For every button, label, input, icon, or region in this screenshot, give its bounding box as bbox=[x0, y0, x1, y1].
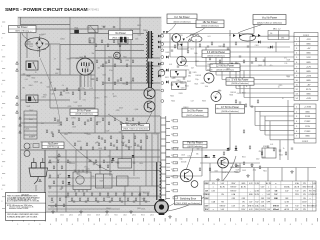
left margin ruler ticks bbox=[2, 22, 5, 208]
svg-text:D605: D605 bbox=[166, 52, 170, 54]
svg-text:C605: C605 bbox=[102, 75, 106, 77]
svg-text:C605: C605 bbox=[222, 162, 226, 164]
svg-text:GND: GND bbox=[306, 62, 311, 64]
resistor bbox=[219, 60, 221, 63]
svg-text:R621: R621 bbox=[195, 83, 199, 85]
voltage data table bbox=[204, 181, 316, 211]
svg-text:(D616 is Defective): (D616 is Defective) bbox=[221, 110, 238, 113]
resistor bbox=[261, 152, 263, 155]
capacitor bbox=[69, 162, 71, 163]
svg-text:+5V: +5V bbox=[307, 48, 311, 50]
svg-text:+8V: +8V bbox=[307, 85, 311, 87]
svg-text:14: 14 bbox=[296, 98, 298, 100]
capacitor bbox=[121, 201, 123, 202]
diode D320 bbox=[258, 41, 260, 44]
svg-text:Q612: Q612 bbox=[105, 215, 109, 217]
svg-text:0.47: 0.47 bbox=[187, 156, 190, 158]
diode bbox=[227, 148, 230, 150]
resistor bbox=[53, 166, 55, 169]
svg-text:220p: 220p bbox=[253, 170, 257, 172]
resistor bbox=[122, 136, 124, 139]
callout box: 5v-2 No Power bbox=[182, 108, 208, 117]
svg-text:AC IN: AC IN bbox=[295, 186, 300, 189]
svg-text:C603: C603 bbox=[42, 97, 46, 99]
svg-text:33k: 33k bbox=[23, 74, 26, 76]
svg-text:100k: 100k bbox=[135, 39, 139, 41]
svg-text:220p: 220p bbox=[179, 159, 183, 161]
resistor bbox=[128, 147, 130, 150]
transistor Q620 bbox=[211, 92, 221, 102]
resistor bbox=[146, 136, 148, 139]
svg-text:4.7: 4.7 bbox=[229, 35, 231, 37]
svg-text:3.3V: 3.3V bbox=[306, 57, 311, 59]
svg-text:6: 6 bbox=[296, 62, 297, 64]
svg-text:4: 4 bbox=[296, 121, 297, 123]
resistor bbox=[114, 82, 116, 85]
svg-text:R642: R642 bbox=[118, 59, 122, 61]
svg-text:AC IN: AC IN bbox=[220, 186, 225, 189]
transistor Q602 bbox=[144, 88, 155, 99]
inductor L611 bbox=[190, 35, 199, 37]
resistor bbox=[96, 78, 98, 81]
svg-text:D603: D603 bbox=[34, 81, 38, 83]
svg-text:650mA: 650mA bbox=[273, 208, 279, 211]
diode bbox=[235, 148, 238, 150]
leader wire Vcc box bbox=[238, 25, 262, 34]
IC visor block under CON2 bbox=[262, 148, 276, 158]
svg-text:10: 10 bbox=[37, 48, 39, 50]
relay RL601 bbox=[118, 35, 128, 44]
svg-text:4.7: 4.7 bbox=[54, 58, 56, 60]
svg-text:R633: R633 bbox=[202, 100, 206, 102]
svg-text:AC IN: AC IN bbox=[241, 186, 246, 189]
svg-text:33k: 33k bbox=[59, 189, 62, 191]
svg-text:L602: L602 bbox=[256, 159, 260, 161]
diode bbox=[68, 175, 71, 177]
svg-text:Q604: Q604 bbox=[258, 65, 262, 67]
resistor bbox=[243, 60, 245, 63]
resistor bbox=[51, 198, 53, 201]
svg-text:R602: R602 bbox=[167, 167, 171, 169]
svg-text:D605: D605 bbox=[165, 71, 169, 73]
svg-text:(Q615 Defective): (Q615 Defective) bbox=[187, 145, 202, 148]
capacitor bbox=[97, 201, 99, 202]
svg-text:D611: D611 bbox=[222, 158, 226, 160]
svg-text:R621: R621 bbox=[108, 56, 112, 58]
svg-text:12 V/6 No Power: 12 V/6 No Power bbox=[216, 65, 234, 68]
extra bottom bus lines bbox=[48, 162, 160, 209]
svg-text:100k: 100k bbox=[91, 176, 95, 178]
resistor bbox=[84, 122, 86, 125]
svg-text:D601: D601 bbox=[27, 42, 31, 44]
leader curve from fan box bbox=[187, 148, 194, 169]
connector CN602 ladder bbox=[161, 116, 170, 200]
capacitor C628 bbox=[171, 84, 173, 85]
warning triangle bbox=[58, 154, 61, 157]
callout box: 12V/6 No Power bbox=[210, 64, 240, 72]
diode pair cluster D320 area bbox=[233, 34, 236, 37]
resistor bbox=[108, 78, 110, 81]
svg-text:R611: R611 bbox=[90, 71, 94, 73]
svg-text:D612: D612 bbox=[131, 81, 135, 83]
resistor bbox=[111, 198, 113, 201]
resistor bbox=[187, 50, 189, 53]
resistor bbox=[54, 88, 56, 91]
warning triangle bbox=[16, 69, 19, 72]
svg-text:D611: D611 bbox=[84, 166, 88, 168]
resistor bbox=[132, 118, 134, 121]
resistor bbox=[119, 44, 121, 47]
resistor bbox=[138, 122, 140, 125]
svg-text:STB 5V: STB 5V bbox=[248, 205, 255, 207]
svg-text:C628: C628 bbox=[68, 106, 72, 108]
svg-text:GND: GND bbox=[305, 136, 310, 138]
svg-text:12: 12 bbox=[296, 89, 298, 91]
svg-text:R642: R642 bbox=[77, 174, 81, 176]
MDL mini table bbox=[268, 31, 289, 40]
svg-text:11: 11 bbox=[296, 85, 298, 87]
svg-text:10: 10 bbox=[296, 80, 298, 82]
warning triangle bbox=[39, 179, 42, 182]
svg-text:33k: 33k bbox=[50, 82, 53, 84]
transistor Q605 bbox=[114, 52, 121, 59]
relay RL602 bbox=[26, 61, 38, 70]
svg-text:C603: C603 bbox=[55, 158, 59, 160]
wires below Q601 bbox=[81, 72, 91, 87]
connector CON1 pin table bbox=[294, 33, 318, 101]
inductor L602 bbox=[89, 38, 94, 43]
leader wire from callout to bridge bbox=[22, 33, 29, 40]
transistor Q617 bbox=[218, 157, 229, 168]
svg-text:1k: 1k bbox=[246, 86, 248, 88]
resistor bbox=[116, 140, 118, 143]
svg-text:33k: 33k bbox=[40, 83, 43, 85]
transformer T601 secondary windings bbox=[152, 34, 154, 58]
posistor THP601 bbox=[24, 143, 30, 149]
svg-text:x: x bbox=[275, 183, 276, 185]
warning triangle bbox=[84, 56, 87, 59]
warning triangle bbox=[16, 111, 19, 114]
svg-text:OFF: OFF bbox=[267, 202, 270, 204]
svg-text:0.01: 0.01 bbox=[231, 166, 234, 168]
capacitor bbox=[87, 120, 89, 121]
resistor bbox=[99, 165, 101, 168]
diode D615 bbox=[158, 63, 160, 66]
resistor bbox=[57, 175, 59, 178]
resistor bbox=[135, 198, 137, 201]
degauss coil ellipse bbox=[304, 33, 314, 40]
svg-text:R633: R633 bbox=[67, 59, 71, 61]
svg-text:ZD601: ZD601 bbox=[60, 39, 65, 41]
svg-text:13: 13 bbox=[296, 94, 298, 96]
resistor bbox=[235, 164, 237, 167]
connector CON2 pin table bbox=[294, 104, 316, 143]
svg-text:R611: R611 bbox=[242, 157, 246, 159]
svg-text:-12V: -12V bbox=[306, 39, 311, 41]
svg-text:Q601: Q601 bbox=[79, 57, 83, 59]
resistor bbox=[147, 193, 149, 196]
svg-text:470u: 470u bbox=[186, 70, 190, 72]
resistor bbox=[90, 118, 92, 121]
svg-text:R602: R602 bbox=[125, 123, 129, 125]
ground bbox=[79, 210, 83, 214]
svg-text:33k: 33k bbox=[196, 154, 199, 156]
svg-text:D603: D603 bbox=[250, 165, 254, 167]
resistor bbox=[255, 58, 257, 61]
callout box: Vcc No Power bbox=[253, 15, 286, 25]
svg-text:10: 10 bbox=[278, 86, 280, 88]
svg-text:Q604: Q604 bbox=[135, 109, 139, 111]
svg-text:R642: R642 bbox=[142, 198, 146, 200]
resistor bbox=[79, 198, 81, 201]
svg-text:R642: R642 bbox=[143, 192, 147, 194]
svg-text:1k: 1k bbox=[62, 85, 64, 87]
svg-text:STB 5V: STB 5V bbox=[273, 205, 280, 207]
resistor bbox=[199, 168, 201, 171]
svg-text:R601: R601 bbox=[242, 93, 246, 95]
resistor bbox=[62, 181, 64, 184]
transistor Q611 bbox=[172, 34, 181, 43]
svg-text:3: 3 bbox=[296, 48, 297, 50]
svg-text:10: 10 bbox=[35, 72, 37, 74]
resistor bbox=[132, 78, 134, 81]
svg-text:(D605 is Defective): (D605 is Defective) bbox=[201, 25, 218, 28]
svg-text:C605: C605 bbox=[97, 121, 101, 123]
capacitor bbox=[125, 145, 127, 146]
capacitor C625 bbox=[177, 66, 179, 67]
svg-text:+12V: +12V bbox=[306, 66, 312, 68]
bottom margin ruler ticks bbox=[13, 218, 318, 222]
resistor bbox=[87, 198, 89, 201]
svg-text:C605: C605 bbox=[99, 28, 103, 30]
svg-text:L602: L602 bbox=[235, 63, 239, 65]
svg-text:D603: D603 bbox=[86, 169, 90, 171]
svg-text:R621: R621 bbox=[165, 77, 169, 79]
svg-text:680: 680 bbox=[197, 149, 200, 151]
svg-text:R601: R601 bbox=[137, 208, 141, 210]
capacitor bbox=[267, 146, 269, 147]
photocoupler PC601 bbox=[96, 174, 113, 188]
schematic frame lines bbox=[18, 17, 161, 19]
diode D321 bbox=[270, 46, 272, 49]
svg-text:220p: 220p bbox=[195, 79, 199, 81]
resistor bbox=[223, 44, 225, 47]
callout box: No Power / 300V is Missing bbox=[9, 26, 37, 33]
capacitor bbox=[145, 201, 147, 202]
svg-text:R633: R633 bbox=[229, 95, 233, 97]
capacitor bbox=[251, 106, 253, 107]
svg-text:Q604: Q604 bbox=[226, 69, 230, 71]
svg-text:GND: GND bbox=[306, 94, 311, 96]
svg-text:ZD601: ZD601 bbox=[71, 117, 76, 119]
svg-text:3.3 LR No Power: 3.3 LR No Power bbox=[207, 51, 225, 54]
svg-text:5 V/6 No Power: 5 V/6 No Power bbox=[232, 79, 249, 82]
resistor bbox=[46, 130, 48, 133]
svg-text:0.47: 0.47 bbox=[139, 146, 142, 148]
resistor bbox=[86, 143, 88, 146]
svg-text:R604: R604 bbox=[121, 142, 125, 144]
svg-text:R601: R601 bbox=[234, 172, 238, 174]
svg-text:D603: D603 bbox=[184, 66, 188, 68]
capacitor bbox=[85, 201, 87, 202]
resistor bbox=[49, 175, 51, 178]
svg-text:R642: R642 bbox=[27, 106, 31, 108]
resistor bbox=[114, 64, 116, 67]
regulator box D611 bbox=[178, 42, 189, 49]
svg-text:GND: GND bbox=[306, 44, 311, 46]
svg-text:C603: C603 bbox=[87, 27, 91, 29]
svg-text:D603: D603 bbox=[262, 157, 266, 159]
svg-text:ZD601: ZD601 bbox=[180, 83, 185, 85]
svg-text:MDL 1.2: MDL 1.2 bbox=[273, 28, 281, 30]
transistor Q601 (power MOSFET) bbox=[77, 57, 94, 75]
resistor bbox=[75, 193, 77, 196]
thermistor TH601 bbox=[33, 144, 39, 148]
capacitor bbox=[105, 62, 107, 63]
svg-text:R633: R633 bbox=[48, 162, 52, 164]
transistor Q615 bbox=[180, 169, 192, 181]
svg-text:SMPS - POWER CIRCUIT DIAGRAM: SMPS - POWER CIRCUIT DIAGRAM bbox=[5, 7, 88, 13]
svg-text:0.47: 0.47 bbox=[238, 85, 241, 87]
fuse F602 ellipse bbox=[191, 36, 202, 42]
svg-text:220p: 220p bbox=[81, 88, 85, 90]
svg-text:(D618 is Defective): (D618 is Defective) bbox=[75, 112, 92, 115]
resistor bbox=[127, 198, 129, 201]
ground bbox=[290, 170, 294, 174]
resistor bbox=[245, 104, 247, 107]
svg-text:1/7 6V No Power: 1/7 6V No Power bbox=[221, 106, 239, 109]
svg-text:0.01: 0.01 bbox=[169, 64, 172, 66]
fuse F603 ellipse bbox=[240, 34, 256, 41]
svg-text:C605: C605 bbox=[226, 80, 230, 82]
svg-text:D6: D6 bbox=[270, 33, 272, 35]
svg-text:R633: R633 bbox=[51, 206, 55, 208]
svg-text:C644: C644 bbox=[71, 163, 75, 165]
resistor bbox=[72, 92, 74, 95]
svg-text:R621: R621 bbox=[263, 170, 267, 172]
svg-text:R633: R633 bbox=[27, 76, 31, 78]
resistor bbox=[103, 160, 105, 163]
svg-text:4: 4 bbox=[296, 53, 297, 55]
capacitor bbox=[133, 201, 135, 202]
warning triangle bbox=[16, 96, 19, 99]
leader V lines from No SMPS Power box bbox=[108, 112, 152, 124]
warning triangle bbox=[16, 103, 19, 106]
posistor THP602 bbox=[24, 151, 30, 157]
svg-text:R642: R642 bbox=[64, 134, 68, 136]
svg-text:D605: D605 bbox=[98, 148, 102, 150]
svg-text:L602: L602 bbox=[55, 73, 59, 75]
resistor bbox=[84, 92, 86, 95]
resistor bbox=[143, 198, 145, 201]
svg-text:R602: R602 bbox=[170, 96, 174, 98]
svg-text:470u: 470u bbox=[104, 96, 108, 98]
fan motor M601 bbox=[155, 199, 169, 215]
resistor bbox=[120, 60, 122, 63]
resistor bbox=[89, 40, 91, 43]
fuse F601 bbox=[74, 30, 79, 34]
resistor bbox=[104, 147, 106, 150]
callout box: No SMPS Power bbox=[122, 124, 150, 131]
svg-text:C609: C609 bbox=[172, 148, 176, 150]
switch block SW601 bbox=[24, 111, 37, 139]
resistor bbox=[59, 198, 61, 201]
resistor bbox=[209, 57, 211, 60]
bridge rectifier D601 bbox=[25, 36, 60, 57]
capacitor bbox=[279, 150, 281, 151]
warning triangle bbox=[188, 39, 190, 41]
snubber block bbox=[118, 159, 132, 169]
svg-text:C603: C603 bbox=[29, 110, 33, 112]
svg-text:1N4148: 1N4148 bbox=[207, 70, 213, 72]
resistor bbox=[259, 166, 261, 169]
resistor bbox=[52, 134, 54, 137]
resistor bbox=[108, 122, 110, 125]
svg-text:C609: C609 bbox=[119, 131, 123, 133]
capacitor bbox=[73, 201, 75, 202]
svg-text:C609: C609 bbox=[242, 170, 246, 172]
diode mark near Q611 bbox=[183, 39, 185, 41]
svg-text:1k: 1k bbox=[283, 148, 285, 150]
resistor bbox=[134, 136, 136, 139]
capacitor C624 bbox=[183, 60, 185, 61]
svg-text:R633: R633 bbox=[87, 134, 91, 136]
callout box: No Power / F601 bbox=[109, 30, 133, 39]
svg-text:R611: R611 bbox=[286, 76, 290, 78]
resistor bbox=[107, 165, 109, 168]
svg-text:No Power: No Power bbox=[17, 26, 28, 29]
svg-text:C628: C628 bbox=[99, 181, 103, 183]
svg-text:470u: 470u bbox=[128, 120, 132, 122]
capacitor bbox=[239, 102, 241, 103]
svg-text:R642: R642 bbox=[187, 81, 191, 83]
svg-text:STB 5V: STB 5V bbox=[219, 205, 226, 207]
svg-text:Q612: Q612 bbox=[150, 215, 154, 217]
diode D611 bbox=[158, 35, 160, 38]
svg-text:5V No Power: 5V No Power bbox=[77, 109, 91, 112]
callout box: 18v No Power bbox=[196, 20, 224, 28]
capacitor C601 bbox=[103, 27, 105, 28]
ground bbox=[246, 174, 250, 178]
IC602 regulator bbox=[117, 176, 129, 186]
resistor bbox=[132, 60, 134, 63]
terminal circle bbox=[158, 69, 165, 76]
notes box bbox=[5, 193, 45, 221]
capacitor bbox=[93, 163, 95, 164]
svg-text:ZD601: ZD601 bbox=[106, 208, 111, 210]
capacitor bbox=[247, 46, 249, 47]
svg-text:STB 5V: STB 5V bbox=[204, 194, 211, 196]
svg-text:0.01: 0.01 bbox=[41, 123, 44, 125]
diode D613 bbox=[158, 46, 160, 49]
svg-text:3: 3 bbox=[296, 116, 297, 118]
capacitor bbox=[137, 145, 139, 146]
resistor bbox=[98, 136, 100, 139]
svg-text:6: 6 bbox=[296, 131, 297, 133]
svg-text:C615: C615 bbox=[66, 93, 70, 95]
resistor bbox=[235, 100, 237, 103]
diode bbox=[132, 155, 135, 157]
svg-text:680: 680 bbox=[22, 88, 25, 90]
resistor bbox=[63, 204, 65, 207]
svg-text:100k: 100k bbox=[205, 86, 209, 88]
svg-text:0.47: 0.47 bbox=[191, 100, 194, 102]
svg-text:C622: C622 bbox=[60, 215, 64, 217]
svg-text:R602: R602 bbox=[107, 197, 111, 199]
resistor bbox=[139, 193, 141, 196]
resistor bbox=[243, 130, 245, 133]
svg-text:ZD601: ZD601 bbox=[259, 151, 264, 153]
